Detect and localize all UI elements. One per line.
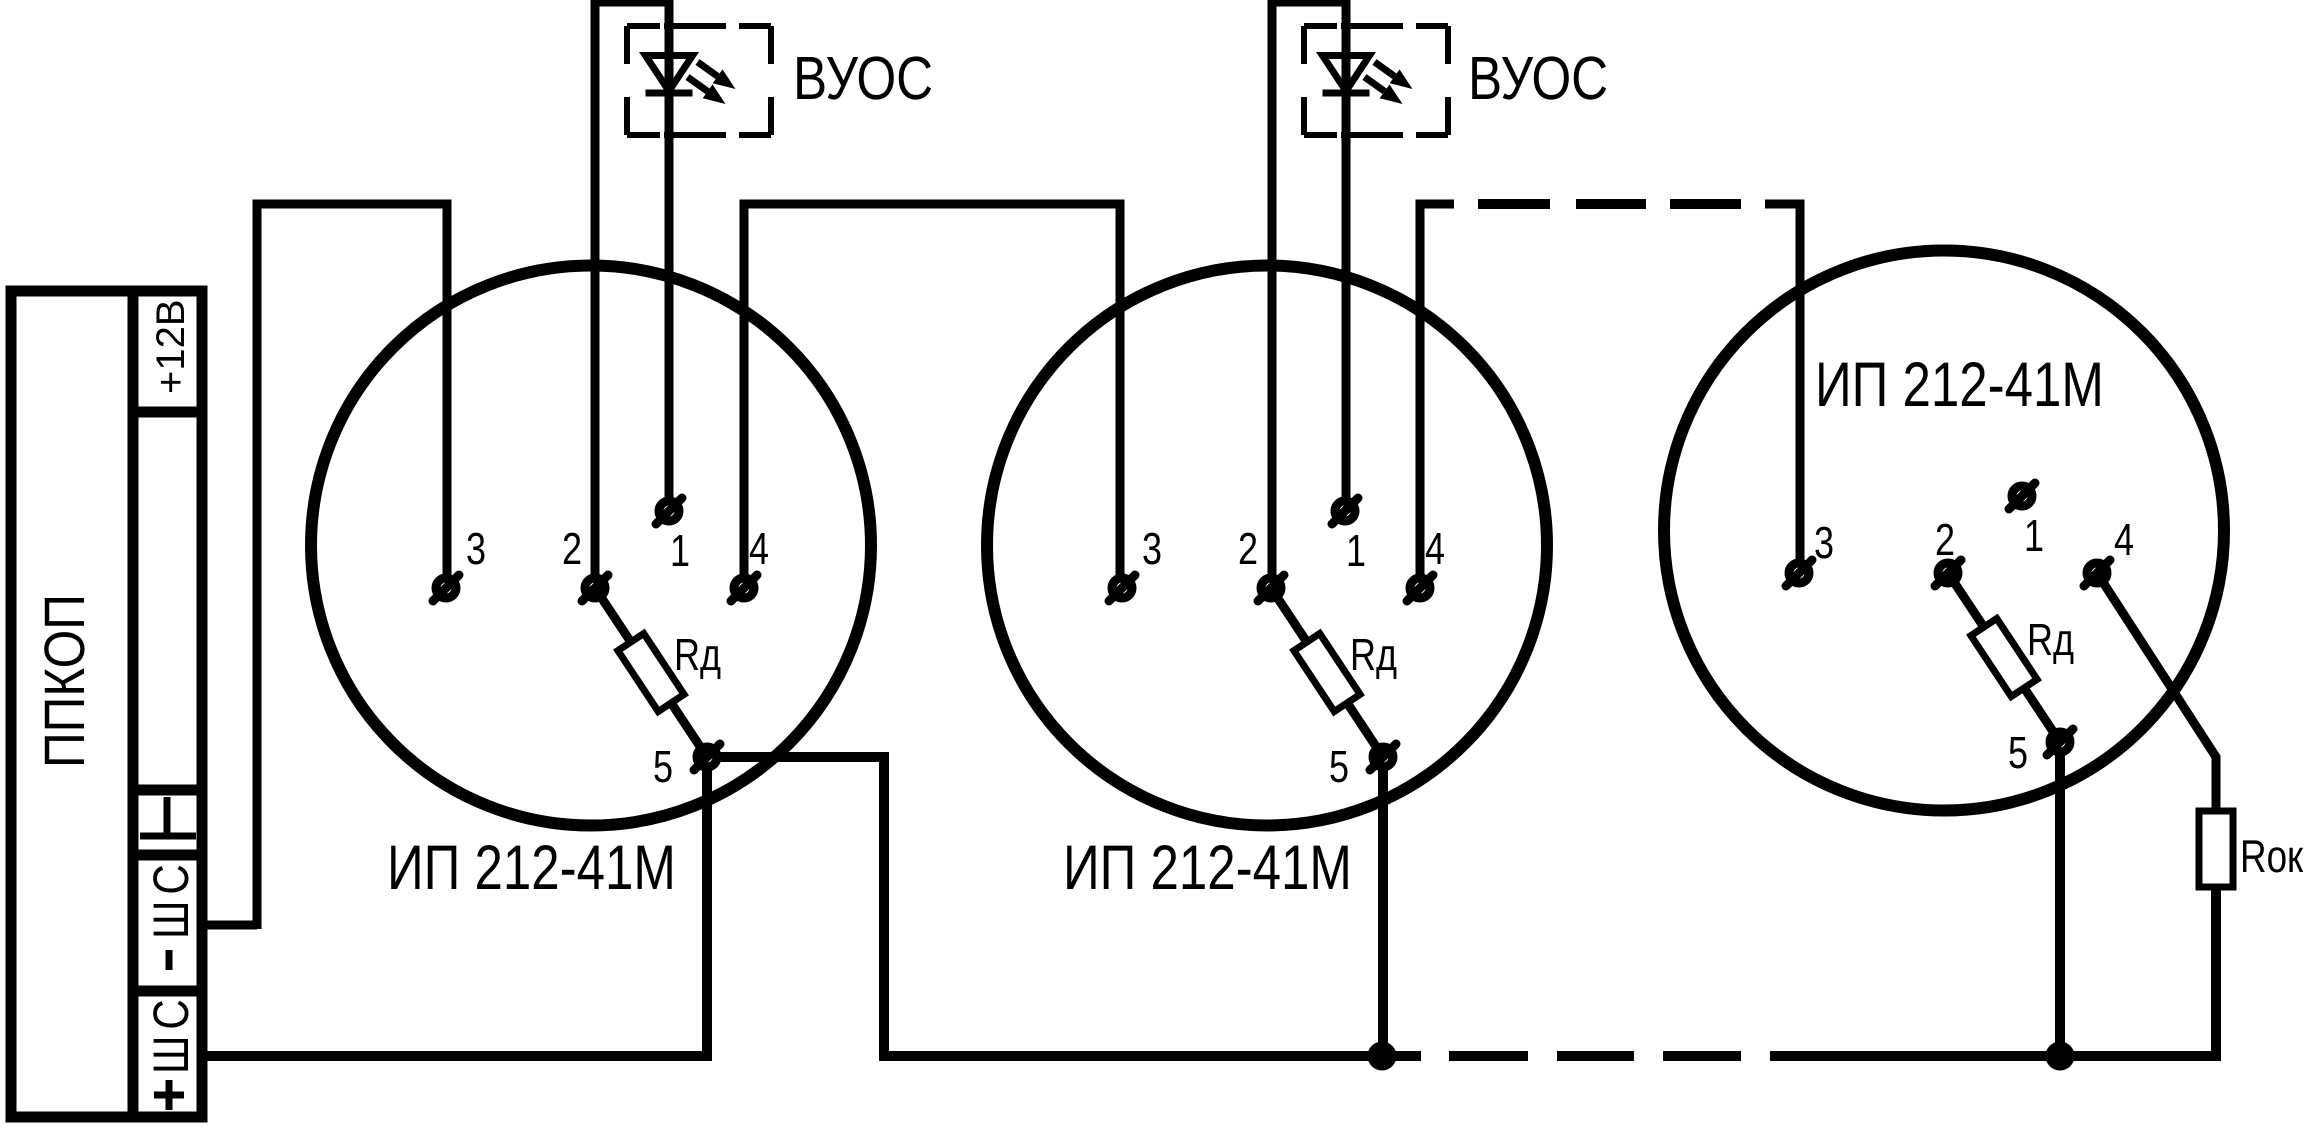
svg-text:ИП 212-41М: ИП 212-41М <box>387 833 676 903</box>
wire corner down to D3 pin 3 <box>1765 204 1800 561</box>
wire D2 pin 5 down to junction <box>1378 769 1388 1056</box>
svg-text:ВУОС: ВУОС <box>1468 44 1608 112</box>
svg-text:2: 2 <box>1935 514 1955 565</box>
wire loop pins 2-1 of D1 to remote indicator <box>595 2 669 576</box>
wire riser -ШС up and over to D1 pin 3 <box>257 204 447 929</box>
svg-text:ИП 212-41М: ИП 212-41М <box>1815 350 2104 420</box>
terminal +ШС divider <box>128 986 208 997</box>
svg-text:4: 4 <box>2114 514 2134 565</box>
wire bottom bus right section to Rok <box>1770 887 2216 1056</box>
LED of remote indicator VUOS 1 <box>646 56 736 105</box>
svg-text:5: 5 <box>653 741 673 792</box>
terminal common symbol <box>140 797 196 836</box>
junction dot D2 pin 5 on bus <box>1368 1042 1397 1071</box>
wire loop pins 2-1 of D2 to remote indicator <box>1272 2 1346 576</box>
svg-text:1: 1 <box>670 525 690 576</box>
wire D2 pin 4 up to dashed link <box>1420 204 1454 576</box>
junction dot D3 pin 5 on bus <box>2046 1042 2075 1071</box>
dashed box of remote indicator VUOS 2 <box>1304 26 1448 135</box>
detector D2 (ИП 212-41М) <box>987 266 1547 826</box>
wire D3 pin 5 down to junction <box>2055 754 2065 1056</box>
wire D1 pin 4 up and over to D2 pin 3 <box>744 204 1120 576</box>
svg-text:1: 1 <box>1346 525 1366 576</box>
svg-text:3: 3 <box>1814 517 1834 568</box>
detector D1 (ИП 212-41М) <box>311 266 871 826</box>
wire Rok top to D3 pin 4 <box>2097 573 2216 811</box>
dashed link D2 pin 4 to D3 pin 3 <box>1478 199 1741 209</box>
svg-text:ШС: ШС <box>143 993 199 1074</box>
svg-text:ИП 212-41М: ИП 212-41М <box>1063 833 1352 903</box>
svg-text:Rок: Rок <box>2240 830 2304 882</box>
terminal common divider <box>128 785 208 796</box>
LED of remote indicator VUOS 2 <box>1323 56 1413 105</box>
svg-text:2: 2 <box>562 523 582 574</box>
svg-text:4: 4 <box>749 523 769 574</box>
svg-text:3: 3 <box>1142 523 1162 574</box>
terminal -ШС divider <box>128 850 208 861</box>
svg-text:4: 4 <box>1425 523 1445 574</box>
svg-text:5: 5 <box>1329 741 1349 792</box>
svg-text:ВУОС: ВУОС <box>793 44 933 112</box>
svg-text:5: 5 <box>2008 727 2028 778</box>
svg-text:1: 1 <box>2024 510 2044 561</box>
wire +ШС bottom bus to D1 pin 5 drop <box>202 769 707 1056</box>
svg-text:2: 2 <box>1238 523 1258 574</box>
control panel terminal column divider <box>128 291 139 1117</box>
svg-text:ШС: ШС <box>143 858 199 939</box>
wire -ШС terminal to riser <box>202 921 257 930</box>
terminal +12В box divider <box>128 407 208 418</box>
detector D3 (ИП 212-41М) <box>1664 251 2224 811</box>
control panel PPKOP outer box <box>11 291 202 1117</box>
wire D1 pin 5 right and down to bus <box>719 757 1421 1056</box>
resistor Rok body <box>2199 811 2233 887</box>
dashed bottom bus link <box>1449 1051 1741 1061</box>
svg-text:+12В: +12В <box>149 299 193 394</box>
svg-text:ППКОП: ППКОП <box>33 594 97 768</box>
dashed box of remote indicator VUOS 1 <box>627 26 771 135</box>
svg-text:3: 3 <box>466 523 486 574</box>
